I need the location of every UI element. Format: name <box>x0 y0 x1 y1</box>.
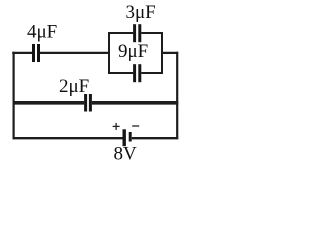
svg-text:2μF: 2μF <box>59 76 89 97</box>
svg-text:9μF: 9μF <box>118 41 148 62</box>
svg-text:4μF: 4μF <box>27 22 57 43</box>
svg-text:3μF: 3μF <box>126 2 156 23</box>
svg-text:8V: 8V <box>114 144 138 162</box>
